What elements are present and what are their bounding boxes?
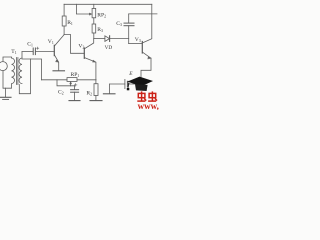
transformer T1 core <box>16 58 18 85</box>
transformer T1 primary winding <box>12 58 15 84</box>
wire top supply rail <box>64 3 152 5</box>
wire bias line <box>22 59 42 80</box>
watermark logo graduation cap <box>127 77 153 91</box>
resistor R1 <box>63 4 65 16</box>
ground (battery) <box>103 93 115 95</box>
resistor R3 <box>92 18 96 39</box>
source microphone circle <box>0 62 7 71</box>
char 1 <box>137 91 146 101</box>
potentiometer RP2 <box>76 4 95 17</box>
wire primary top lead to source <box>3 57 12 62</box>
transistor V3 <box>129 4 152 59</box>
ground (R2) <box>90 100 102 102</box>
ground (V1 emitter) <box>53 70 65 72</box>
diode VD <box>94 36 129 42</box>
transistor V2 <box>84 39 96 80</box>
wire C3 top to right edge <box>129 13 157 15</box>
wire R1 bottom to V2 base <box>64 35 84 54</box>
svg-text:E: E <box>128 71 133 77</box>
battery E <box>110 79 141 93</box>
capacitor C2 <box>71 84 79 101</box>
svg-text:VD: VD <box>105 45 113 51</box>
wire secondary top lead <box>21 52 23 59</box>
wire secondary bottom lead <box>19 59 30 94</box>
char 2 <box>148 91 157 101</box>
potentiometer RP1 <box>57 78 96 86</box>
transistor V1 <box>35 35 64 71</box>
capacitor C1 <box>22 47 39 55</box>
transformer T1 secondary winding <box>19 58 22 84</box>
wire V3 emitter to battery <box>141 58 151 84</box>
svg-text:www,: www, <box>138 101 159 110</box>
wire primary bottom lead <box>3 71 12 89</box>
watermark text chong chong <box>137 91 157 101</box>
ground (transformer) <box>1 88 12 99</box>
resistor R2 <box>94 80 98 100</box>
capacitor C3 <box>124 14 134 44</box>
ground (C2) <box>69 100 80 102</box>
wire bottom bias rail <box>42 79 68 81</box>
